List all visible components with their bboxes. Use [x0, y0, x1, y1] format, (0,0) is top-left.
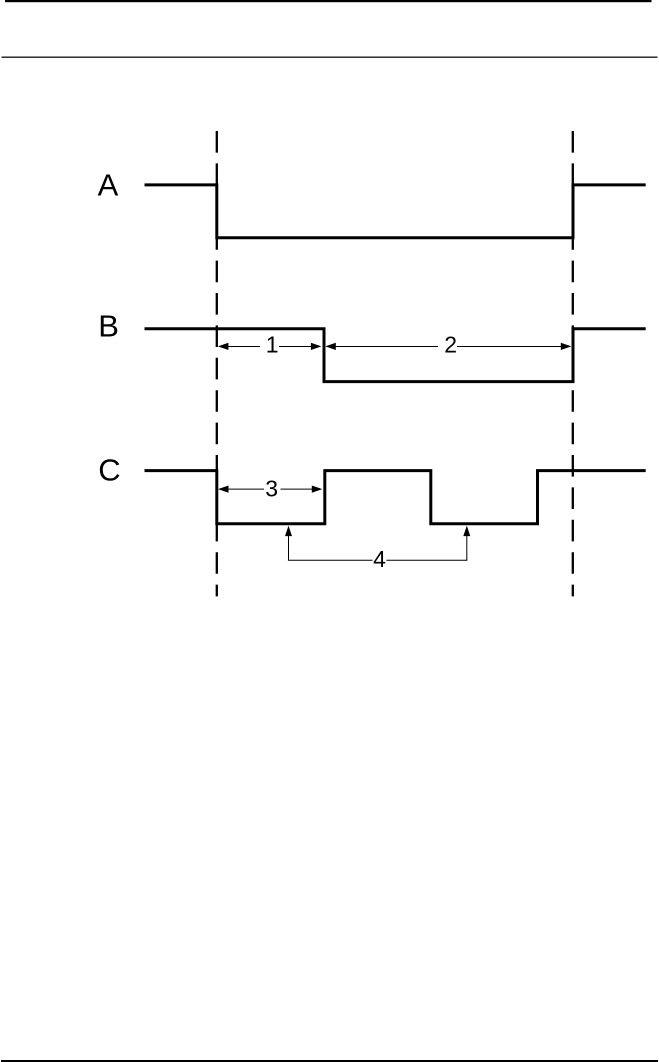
dimension arrow 1 left head: [218, 343, 229, 350]
svg-text:A: A: [98, 167, 119, 202]
dimension arrow 1 shaft: [227, 346, 312, 348]
svg-text:2: 2: [444, 332, 457, 358]
header separator rule: [2, 56, 658, 58]
svg-text:4: 4: [373, 546, 386, 572]
svg-text:C: C: [98, 453, 120, 488]
dimension 4 right stem: [466, 535, 468, 560]
dimension arrow 3 shaft: [227, 488, 313, 490]
dimension arrow 3 left head: [218, 486, 229, 493]
dimension arrow 1 right head: [311, 343, 322, 350]
dimension arrow 3 right head: [312, 486, 323, 493]
header top rule: [5, 0, 652, 2]
dimension arrow 2 shaft: [335, 346, 563, 348]
svg-text:B: B: [98, 309, 119, 344]
dimension arrow 2 right head: [561, 343, 572, 350]
dashed timing marker right: [572, 131, 574, 596]
footer rule: [1, 1060, 658, 1062]
dimension arrow 2 left head: [325, 343, 336, 350]
svg-text:3: 3: [265, 476, 278, 502]
signal C waveform: [145, 471, 646, 524]
dashed timing marker left: [216, 131, 218, 596]
dimension 4 left stem: [288, 535, 290, 560]
dimension 4 left up-arrow head: [285, 526, 292, 537]
dimension 4 right up-arrow head: [463, 526, 470, 537]
signal A waveform: [145, 185, 646, 238]
svg-text:1: 1: [266, 332, 279, 358]
signal B waveform: [145, 329, 646, 382]
dimension 4 connector: [288, 559, 467, 561]
